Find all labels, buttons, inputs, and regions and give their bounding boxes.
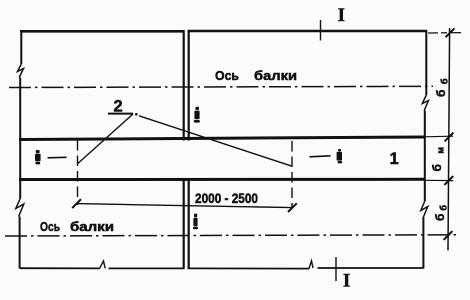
svg-text:бм: бм [430, 136, 446, 171]
svg-text:Ось: Ось [40, 220, 60, 234]
svg-text:Ось: Ось [215, 68, 239, 83]
svg-text:2: 2 [114, 98, 123, 116]
svg-text:балки: балки [254, 68, 297, 83]
svg-text:бб: бб [433, 202, 449, 221]
svg-text:1: 1 [390, 150, 399, 168]
svg-text:балки: балки [70, 220, 114, 234]
svg-text:I: I [338, 6, 345, 26]
svg-text:2000 - 2500: 2000 - 2500 [195, 190, 258, 206]
svg-text:бб: бб [434, 73, 450, 97]
svg-text:I: I [343, 272, 350, 292]
